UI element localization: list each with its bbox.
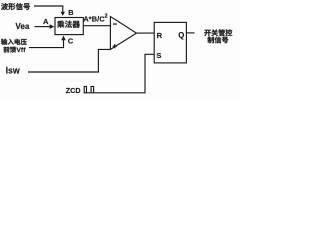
wire waveform-signal to multiplier B input [34,6,63,12]
input voltage feedforward label 输入电压 [1,39,27,45]
svg-text:Q: Q [178,31,184,40]
svg-text:ZCD: ZCD [66,86,81,95]
wire Vff to multiplier C input [29,40,64,48]
output label 制信号 [207,37,228,44]
svg-text:R: R [157,31,163,40]
multiplier U1 box [55,18,83,35]
comparator minus input marker [113,23,117,24]
wire comparator output to latch R input [136,32,154,34]
ZCD pulse waveform symbol [84,86,93,92]
RS latch U3 box [154,22,186,63]
multiplier label 乘法器 [57,21,80,28]
comparator plus input marker [113,44,117,48]
arrowhead A (right) [50,24,55,29]
wire ZCD to latch S input [84,54,155,93]
arrowhead B (down) [61,12,65,16]
waveform signal label 波形信号 [1,3,30,10]
svg-text:Isw: Isw [6,65,20,75]
wire multiplier output to comparator inverting input [83,25,110,27]
wire Vea to multiplier A input [35,26,50,28]
wire latch Q output [186,32,194,34]
wire Isw to comparator non-inverting input [28,49,110,72]
svg-text:B: B [68,8,74,17]
svg-text:C: C [68,36,74,45]
svg-text:Vea: Vea [15,22,29,31]
svg-text:2: 2 [105,13,108,19]
svg-text:S: S [156,51,161,60]
svg-text:Vff: Vff [16,47,26,54]
output label 开关管控 [204,29,232,36]
svg-text:A*B/C: A*B/C [83,15,105,24]
svg-text:A: A [43,17,49,26]
feedforward label 前馈Vff [4,47,17,53]
comparator U2 triangle [110,17,136,50]
arrowhead C (up) [61,36,65,41]
